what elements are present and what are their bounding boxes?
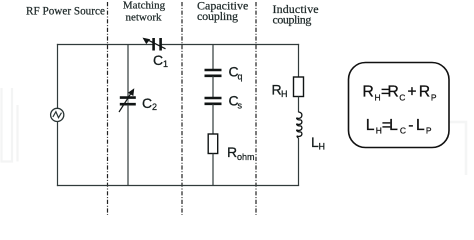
svg-text:coupling: coupling [273,13,312,27]
wire below LH [298,138,300,186]
divider 3 (dash-dot) [255,2,257,215]
svg-text:R: R [362,84,373,101]
svg-text:C: C [399,92,405,102]
svg-text:-: - [408,117,413,134]
svg-text:1: 1 [163,59,168,69]
wire C2 branch lower [127,105,129,186]
capacitor Cs [205,98,222,104]
wire left branch lower [57,121,59,186]
svg-text:H: H [375,92,381,102]
wire left branch upper [57,44,59,109]
wire inductive branch upper [298,44,300,77]
svg-text:s: s [238,101,243,111]
equation LH = LC - LP [366,117,432,136]
svg-text:H: H [281,89,288,99]
svg-text:L: L [366,117,375,134]
svg-text:L: L [389,117,398,134]
wire C2 branch upper [127,44,129,97]
AC source [51,108,64,121]
divider 1 (dash-dot) [107,2,109,215]
svg-text:H: H [319,142,326,152]
svg-text:L: L [416,117,425,134]
wire between Cq and Cs [212,76,214,98]
svg-text:R: R [227,144,237,160]
wire bottom rail [57,185,299,187]
wire below Rohm [212,154,214,186]
wire between Cs and Rohm [212,104,214,134]
capacitor Cq [205,70,222,76]
capacitor C2 (variable) [119,88,136,112]
svg-text:P: P [426,126,432,136]
svg-text:RF Power Source: RF Power Source [26,6,105,18]
svg-text:Matching: Matching [123,0,166,11]
svg-text:2: 2 [152,102,157,112]
svg-text:R: R [387,84,398,101]
equation box [349,63,450,148]
resistor Rohm [208,134,218,154]
wire top rail (right of C1) [161,44,299,46]
wire capacitive branch upper [212,44,214,70]
svg-text:network: network [125,11,162,23]
svg-text:q: q [238,72,243,82]
divider 2 (dash-dot) [181,2,183,215]
equation RH = RC + RP [362,84,437,103]
svg-text:coupling: coupling [197,9,238,23]
svg-text:C: C [400,126,406,136]
svg-text:C: C [153,52,163,68]
svg-text:R: R [419,84,430,101]
wire between RH and LH [298,97,300,113]
capacitor C1 (variable, in top rail) [143,38,166,51]
svg-text:P: P [431,92,437,102]
svg-text:+: + [407,84,416,101]
svg-text:C: C [142,95,152,111]
wire top rail (left of C1) [57,44,153,46]
svg-text:ohm: ohm [237,152,255,162]
inductor LH [297,112,302,138]
resistor RH [294,77,304,97]
